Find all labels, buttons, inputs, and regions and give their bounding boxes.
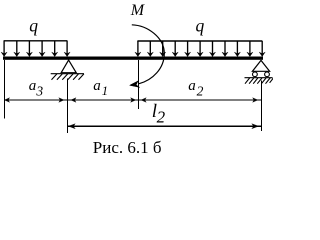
pinned support hatching <box>52 74 84 80</box>
svg-text:q: q <box>196 15 205 35</box>
distributed load q (right) top line <box>137 40 262 42</box>
svg-text:a: a <box>93 78 101 94</box>
extension line at left support <box>67 79 69 133</box>
load arrow L2 <box>14 41 20 57</box>
moment M arc <box>132 25 165 84</box>
roller support ground line <box>245 77 273 79</box>
load arrow L4 <box>39 41 45 57</box>
svg-text:1: 1 <box>102 84 108 98</box>
load arrow R7 <box>210 41 216 57</box>
pinned support (left) triangle <box>61 60 76 73</box>
dim arrow l2 right <box>252 124 259 129</box>
distributed load q (left) top line <box>4 40 68 42</box>
svg-text:Рис. 6.1 б: Рис. 6.1 б <box>93 138 162 157</box>
dim arrow a3 right <box>59 98 64 103</box>
moment M arrowhead <box>130 81 140 88</box>
extension line at right support <box>261 81 263 131</box>
beam <box>3 57 263 60</box>
dim arrow a1 right <box>131 98 136 103</box>
load arrow R2 <box>147 41 153 57</box>
dim arrow a1 left <box>71 98 76 103</box>
roller left <box>253 72 258 77</box>
svg-text:a: a <box>29 78 37 94</box>
load arrow R1 <box>135 41 141 57</box>
load arrow R6 <box>197 41 203 57</box>
roller right <box>265 72 270 77</box>
dim arrow a2 left <box>141 98 146 103</box>
load arrow R8 <box>222 41 228 57</box>
extension line at right load start <box>138 60 140 109</box>
load arrow R10 <box>247 41 253 57</box>
svg-text:2: 2 <box>197 83 204 98</box>
pinned support ground line <box>51 73 84 75</box>
dimension line l2 <box>68 125 262 127</box>
load arrow L5 <box>52 41 58 57</box>
svg-text:M: M <box>130 2 146 19</box>
svg-text:3: 3 <box>35 84 43 99</box>
roller support (right) triangle <box>252 60 269 71</box>
svg-text:a: a <box>188 78 196 94</box>
dimension line a3/a1/a2 <box>5 99 262 101</box>
load arrow R4 <box>172 41 178 57</box>
roller support hatching <box>245 78 274 84</box>
svg-text:q: q <box>29 15 38 35</box>
load arrow L3 <box>26 41 32 57</box>
load arrow R11 <box>259 41 265 57</box>
svg-text:2: 2 <box>157 107 166 126</box>
load arrow L6 <box>64 41 70 57</box>
extension line at beam left end <box>4 60 6 119</box>
dim arrow l2 left <box>68 124 75 129</box>
dim arrow a2 right <box>253 98 258 103</box>
load arrow L1 <box>1 41 7 57</box>
load arrow R5 <box>185 41 191 57</box>
dim arrow a3 left <box>4 98 9 103</box>
load arrow R9 <box>234 41 240 57</box>
load arrow R3 <box>160 41 166 57</box>
